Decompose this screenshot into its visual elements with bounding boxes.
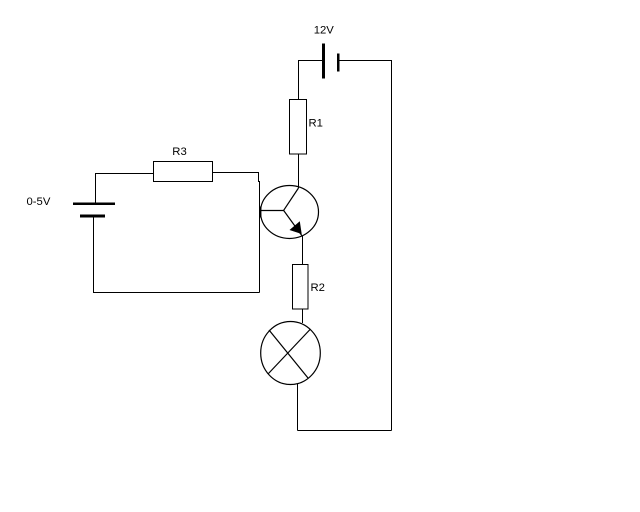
battery B1 positive plate (long) [322,44,325,79]
wire lamp bottom to return [297,384,299,431]
wire R2 bottom to lamp top [302,309,304,323]
svg-text:0-5V: 0-5V [27,196,51,208]
wire battery B2 bottom return [94,217,260,292]
wire transistor emitter to R2 top [302,236,304,265]
wire R3 right down to transistor base column [213,173,260,293]
wire battery B1 left plate to R1 top [299,61,323,100]
svg-text:R2: R2 [311,282,325,294]
svg-text:12V: 12V [314,24,335,36]
resistor R2 [293,265,309,310]
resistor R1 [290,100,307,155]
transistor Q1 [259,186,319,239]
wire bottom return [298,430,392,432]
battery B1 negative plate (short) [337,54,340,72]
battery B2 negative plate (short) [80,215,105,218]
battery B2 positive plate (long) [73,202,115,205]
wire battery B1 right plate down right side [340,61,392,431]
resistor R3 [154,162,213,182]
lamp L1 [261,322,321,385]
wire battery B2 top plate to R3 left [96,174,154,203]
svg-text:R3: R3 [172,146,186,158]
wire R1 bottom to transistor collector [298,154,300,188]
svg-text:R1: R1 [309,117,323,129]
